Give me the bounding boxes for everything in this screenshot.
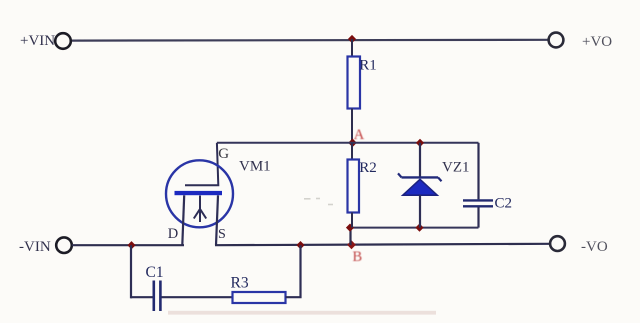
- wire zener loop bottom: [351, 227, 479, 229]
- svg-text:VM1: VM1: [239, 159, 271, 175]
- wire top rail: [71, 39, 549, 42]
- terminal -VO: [550, 236, 565, 251]
- terminal +VO: [549, 33, 564, 48]
- junction R3 branch: [296, 241, 304, 249]
- wire C1 to R3: [162, 296, 233, 298]
- wire gate lead: [185, 143, 218, 185]
- wire C1 branch vertical: [130, 245, 132, 298]
- capacitor C2: [463, 143, 493, 228]
- node A: [348, 139, 357, 148]
- svg-text:C1: C1: [146, 264, 164, 281]
- svg-text:VZ1: VZ1: [442, 160, 470, 176]
- svg-text:G: G: [218, 146, 229, 162]
- svg-text:S: S: [218, 227, 226, 242]
- junction R2 bottom: [346, 224, 354, 232]
- junction VZ1 bottom: [415, 224, 423, 232]
- transistor VM1: [166, 160, 233, 245]
- svg-text:A: A: [354, 127, 365, 143]
- svg-text:-VIN: -VIN: [19, 239, 51, 255]
- wire node A horizontal: [217, 142, 479, 144]
- resistor R2: [348, 143, 360, 228]
- wire -VIN to D: [72, 244, 184, 246]
- svg-text:C2: C2: [495, 196, 513, 212]
- svg-text:R2: R2: [359, 160, 377, 176]
- artifact faint marks left of R2: [304, 199, 333, 205]
- svg-text:+VO: +VO: [582, 34, 612, 50]
- wire S to -VO: [215, 244, 549, 245]
- svg-text:-VO: -VO: [581, 239, 608, 255]
- capacitor C1: [154, 281, 161, 312]
- wire to C1: [131, 296, 153, 298]
- svg-text:R3: R3: [231, 275, 249, 292]
- svg-text:R1: R1: [359, 58, 377, 74]
- junction top of R1: [348, 35, 356, 43]
- junction C1 branch: [127, 241, 135, 249]
- wire R3 to junction: [286, 245, 301, 297]
- svg-text:B: B: [353, 249, 363, 265]
- resistor R1: [348, 39, 361, 143]
- resistor R3: [233, 292, 286, 303]
- terminal -VIN: [56, 237, 72, 253]
- svg-text:+VIN: +VIN: [20, 33, 55, 49]
- zener diode VZ1: [398, 143, 442, 228]
- terminal +VIN: [55, 33, 71, 49]
- svg-text:D: D: [168, 226, 178, 242]
- artifact bottom streak: [168, 311, 436, 315]
- junction VZ1 top: [416, 139, 424, 147]
- node B: [347, 240, 356, 249]
- wire B link: [349, 228, 351, 246]
